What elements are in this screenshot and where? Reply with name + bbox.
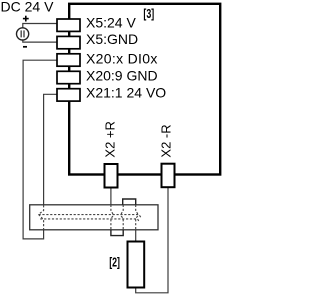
svg-text:X2 -R: X2 -R xyxy=(158,124,173,157)
svg-text:X2 +R: X2 +R xyxy=(103,121,118,158)
svg-text:[3]: [3] xyxy=(143,7,154,21)
svg-text:X5:GND: X5:GND xyxy=(86,31,138,47)
svg-text:X5:24 V: X5:24 V xyxy=(86,15,136,31)
svg-text:[2]: [2] xyxy=(109,256,120,270)
svg-text:X20:x DI0x: X20:x DI0x xyxy=(86,50,158,66)
svg-text:X20:9 GND: X20:9 GND xyxy=(86,68,158,84)
svg-text:X21:1 24 VO: X21:1 24 VO xyxy=(86,85,166,101)
svg-text:DC 24 V: DC 24 V xyxy=(1,0,55,15)
